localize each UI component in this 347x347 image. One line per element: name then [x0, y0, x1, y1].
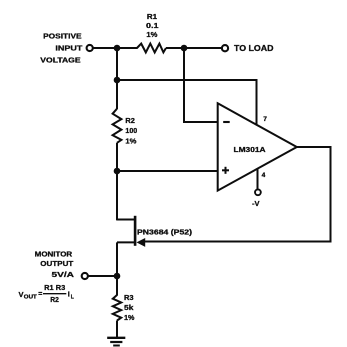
junction: monitor output node [114, 273, 121, 280]
svg-text:1%: 1% [125, 137, 136, 146]
wire: positive input terminal to R1 [93, 47, 138, 49]
svg-text:LM301A: LM301A [234, 145, 266, 154]
drain lead [117, 219, 134, 221]
wire: R1 to load terminal [166, 47, 221, 49]
svg-text:5k: 5k [124, 303, 134, 312]
svg-text:1%: 1% [124, 313, 135, 322]
svg-text:PN3684 (P52): PN3684 (P52) [137, 229, 192, 236]
op-amp U1 body [218, 103, 297, 190]
svg-text:MONITOR: MONITOR [35, 249, 73, 258]
wire: input node down to R2 top [116, 48, 118, 109]
svg-text:7: 7 [263, 116, 267, 123]
svg-text:POSITIVE: POSITIVE [43, 31, 82, 40]
label: MONITOR OUTPUT 5V/A [35, 249, 75, 279]
svg-text:INPUT: INPUT [55, 43, 83, 52]
label: POSITIVE INPUT VOLTAGE [40, 31, 83, 64]
svg-text:R2: R2 [125, 116, 134, 125]
svg-text:VOLTAGE: VOLTAGE [40, 55, 80, 64]
terminal: positive input voltage [87, 45, 93, 51]
resistor R2 [113, 109, 122, 143]
ground [107, 338, 125, 346]
label: R2 100 1% [125, 116, 137, 146]
svg-text:R2: R2 [50, 295, 59, 304]
transistor Q1 PN3684 JFET [117, 216, 145, 247]
wire: monitor node to terminal [88, 275, 117, 277]
op-amp non-inverting input marker [222, 167, 229, 174]
svg-text:R1: R1 [147, 12, 157, 21]
gate arrowhead [137, 238, 146, 247]
wire: V+ rail to op-amp pin 7 [117, 80, 257, 125]
source lead [117, 241, 134, 243]
svg-text:OUT: OUT [24, 294, 38, 300]
svg-text:OUTPUT: OUTPUT [40, 259, 73, 268]
svg-text:-V: -V [252, 199, 260, 208]
svg-text:V: V [19, 290, 24, 299]
resistor R1 [137, 44, 166, 53]
junction: non-inverting input tap [114, 168, 121, 175]
junction: V+ supply tap [114, 77, 121, 84]
op-amp inverting input marker [223, 121, 230, 123]
junction: R1 load-side node [181, 45, 188, 52]
svg-text:R1 R3: R1 R3 [44, 283, 65, 292]
label: R1 0.1 1% [146, 12, 159, 39]
wire: R1 load side down to inverting input [184, 48, 218, 122]
svg-text:0.1: 0.1 [146, 21, 159, 30]
terminal: monitor output [82, 273, 88, 279]
svg-text:TO LOAD: TO LOAD [234, 44, 274, 53]
resistor R3 [113, 295, 121, 321]
svg-text:100: 100 [125, 126, 137, 135]
channel bar [134, 216, 137, 246]
wire: op-amp output to JFET gate [145, 147, 331, 242]
svg-text:5V/A: 5V/A [52, 270, 75, 279]
svg-text:I: I [68, 290, 70, 299]
label: R3 5k 1% [124, 293, 135, 322]
terminal: -V supply [255, 189, 261, 195]
terminal: TO LOAD [222, 45, 228, 51]
pin 4 wire [257, 169, 259, 190]
svg-text:4: 4 [262, 172, 266, 179]
svg-text:R3: R3 [124, 293, 134, 302]
wire: R2 bottom down to JFET drain [116, 143, 118, 221]
wire: tap to non-inverting input [117, 170, 218, 172]
svg-text:1%: 1% [146, 30, 157, 39]
formula: VOUT = (R1 R3 / R2) IL [19, 283, 75, 304]
svg-text:=: = [38, 291, 42, 298]
junction: input node [114, 45, 121, 52]
wire: R3 bottom to ground [116, 321, 118, 338]
wire: JFET source down to monitor node and R3 [116, 242, 118, 295]
